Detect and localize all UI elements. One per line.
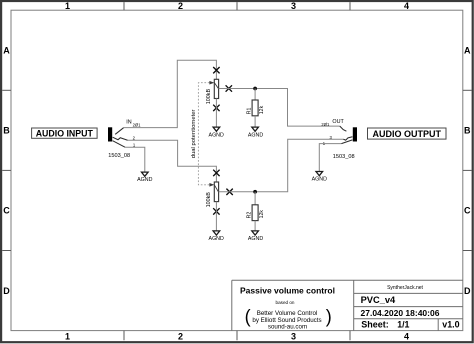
svg-text:D: D	[464, 286, 471, 296]
AUDIO OUTPUT label box	[368, 128, 447, 139]
svg-text:R2: R2	[246, 212, 252, 219]
svg-text:C: C	[3, 206, 10, 216]
wire tip contact to pot P2 top	[128, 140, 217, 182]
svg-text:1/1: 1/1	[397, 320, 409, 330]
pin cross P2 pin3 (bottom)	[213, 208, 219, 214]
svg-text:100kB: 100kB	[206, 192, 212, 208]
pin cross P2 wiper	[226, 189, 232, 195]
contact sleeve (pin 1)	[113, 141, 125, 148]
coupling arrow into P1	[209, 81, 214, 85]
ground AGND (R1)	[248, 127, 263, 138]
body	[252, 205, 258, 221]
title: attribution text	[252, 310, 321, 330]
svg-text:C: C	[464, 206, 471, 216]
svg-text:1: 1	[65, 1, 70, 11]
svg-text:27.04.2020 18:40:06: 27.04.2020 18:40:06	[361, 308, 440, 318]
svg-text:A: A	[464, 46, 471, 56]
svg-text:1503_08: 1503_08	[108, 153, 130, 159]
wire junction to body	[254, 89, 256, 101]
svg-text:AGND: AGND	[209, 132, 224, 138]
wire sleeve contact to AGND	[125, 147, 145, 172]
wiper diagonal	[215, 185, 219, 192]
svg-text:2: 2	[178, 1, 183, 11]
row labels right	[464, 46, 471, 296]
resistor R2 12k	[246, 192, 265, 231]
svg-text:12k: 12k	[259, 105, 265, 114]
svg-text:): )	[326, 307, 332, 327]
svg-text:AGND: AGND	[248, 132, 263, 138]
junction node P1/R1	[253, 87, 257, 91]
ground AGND (P2)	[209, 231, 224, 242]
contact tip (pin 2)	[113, 137, 128, 140]
ground AGND (R2)	[248, 231, 263, 242]
jack plug bar	[108, 127, 112, 141]
svg-text:1: 1	[65, 331, 70, 341]
ground AGND (output jack)	[312, 172, 327, 183]
wire P1 bottom to AGND	[215, 99, 217, 128]
body	[252, 100, 258, 116]
svg-text:R1: R1	[246, 107, 252, 114]
jack plug bar	[353, 127, 357, 141]
svg-text:D: D	[3, 286, 10, 296]
svg-text:B: B	[464, 126, 471, 136]
svg-text:PVC_v4: PVC_v4	[361, 295, 396, 305]
svg-text:OUT: OUT	[332, 119, 344, 125]
ground AGND (input jack)	[137, 172, 152, 183]
contact OUT (pin 2Ø1)	[340, 126, 347, 131]
wire P2 wiper to junction and output	[219, 139, 344, 192]
svg-text:dual potentiometer: dual potentiometer	[191, 109, 197, 158]
dashed gang coupling line (dual potentiometer)	[198, 83, 209, 185]
contact IN (pin 2Ø1)	[115, 128, 123, 135]
AUDIO INPUT label box	[32, 128, 98, 139]
body	[214, 182, 218, 202]
svg-text:AGND: AGND	[248, 236, 263, 242]
svg-text:Passive volume control: Passive volume control	[240, 286, 335, 296]
pin cross P1 wiper	[226, 85, 232, 91]
resistor R1 12k	[246, 89, 265, 128]
svg-text:1503_08: 1503_08	[333, 154, 355, 160]
svg-text:IN: IN	[126, 119, 131, 125]
connector X1 input jack 1503_08	[108, 119, 141, 159]
svg-text:3: 3	[291, 1, 296, 11]
coupling arrow into P2	[209, 183, 214, 187]
row labels left	[3, 46, 10, 296]
ground AGND (P1)	[209, 127, 224, 138]
wire output sleeve to AGND	[319, 144, 341, 172]
junction node P2/R2	[253, 190, 257, 194]
wire P1 wiper to junction and output	[219, 89, 340, 127]
wire junction to body	[254, 192, 256, 205]
wire body to ground	[254, 116, 256, 127]
svg-text:AGND: AGND	[209, 236, 224, 242]
title block outline	[232, 280, 463, 330]
wire IN contact to pot P1 top	[124, 60, 217, 127]
wire body to ground	[254, 221, 256, 231]
svg-text:12k: 12k	[259, 210, 265, 219]
svg-text:based on: based on	[276, 300, 295, 305]
potentiometer P1 100kB	[206, 79, 219, 104]
svg-text:B: B	[3, 126, 10, 136]
svg-text:A: A	[3, 46, 10, 56]
wire P2 bottom to AGND	[215, 202, 217, 231]
svg-text:SyntherJack.net: SyntherJack.net	[387, 285, 423, 291]
wiper diagonal	[215, 83, 219, 89]
contact sleeve (pin 1)	[341, 140, 352, 144]
svg-text:v1.0: v1.0	[442, 320, 459, 330]
svg-text:4: 4	[404, 331, 409, 341]
svg-text:100kB: 100kB	[206, 89, 212, 105]
svg-text:3: 3	[291, 331, 296, 341]
svg-text:AGND: AGND	[312, 177, 327, 183]
pin cross P1 pin1 (top)	[213, 67, 219, 73]
svg-text:4: 4	[404, 1, 409, 11]
svg-text:2: 2	[178, 331, 183, 341]
contact tip (pin 2)	[343, 137, 352, 140]
svg-text:2Ø1: 2Ø1	[321, 122, 330, 127]
column labels bottom	[65, 331, 409, 341]
body	[214, 79, 218, 98]
svg-text:2Ø1: 2Ø1	[133, 122, 142, 127]
column labels top	[65, 1, 409, 11]
svg-text:sound-au.com: sound-au.com	[268, 324, 307, 331]
svg-text:AGND: AGND	[137, 177, 152, 183]
svg-text:Sheet:: Sheet:	[361, 320, 389, 330]
connector X2 output jack 1503_08	[321, 119, 357, 160]
svg-text:AUDIO INPUT: AUDIO INPUT	[36, 129, 94, 139]
svg-text:(: (	[245, 307, 251, 327]
pin cross P1 pin3 (bottom)	[213, 105, 219, 111]
pin cross P2 pin1 (top)	[213, 170, 219, 176]
svg-text:AUDIO OUTPUT: AUDIO OUTPUT	[373, 129, 442, 139]
potentiometer P2 100kB	[206, 182, 219, 207]
